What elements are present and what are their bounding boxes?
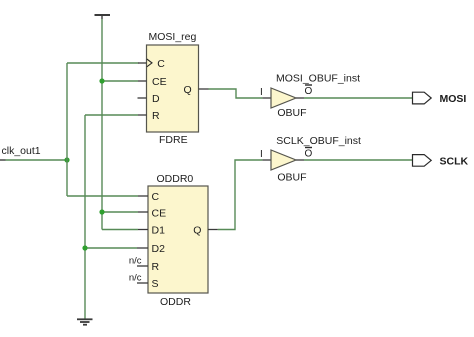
pin stub OBUF1 I <box>262 97 271 99</box>
pin stub ODDR D2 <box>137 247 148 249</box>
svg-text:O: O <box>305 149 313 160</box>
svg-text:S: S <box>152 278 159 290</box>
wire clk to ODDR C <box>67 195 138 197</box>
svg-text:D: D <box>152 93 160 105</box>
svg-text:SCLK: SCLK <box>440 156 469 168</box>
pin stub FDRE D <box>138 97 147 99</box>
svg-text:MOSI_OBUF_inst: MOSI_OBUF_inst <box>276 73 360 85</box>
wire OBUF2 to SCLK port <box>304 159 413 161</box>
svg-text:ODDR0: ODDR0 <box>157 173 194 185</box>
wire GND vertical <box>84 115 86 319</box>
svg-text:clk_out1: clk_out1 <box>2 145 41 157</box>
pin stub FDRE CE <box>138 80 147 82</box>
svg-text:OBUF: OBUF <box>277 172 306 184</box>
buffer OBUF U:MOSI_OBUF_inst <box>271 88 296 108</box>
svg-text:ODDR: ODDR <box>160 296 191 308</box>
buffer OBUF U:SCLK_OBUF_inst <box>271 150 296 170</box>
oddr ODDR U:ODDR0 body <box>148 186 208 293</box>
pin stub ODDR Q <box>208 229 218 231</box>
svg-text:I: I <box>260 87 263 98</box>
pin stub ODDR D1 <box>138 229 148 231</box>
pin stub ODDR R <box>137 265 148 267</box>
pin stub OBUF2 I <box>262 159 271 161</box>
pin stub ODDR C <box>138 195 148 197</box>
pin stub ODDR CE <box>138 211 148 213</box>
power VCC bar <box>95 14 111 16</box>
pin name OBUF1 O with tick <box>305 85 313 97</box>
wire clk to FDRE C <box>67 62 139 64</box>
wire VCC to ODDR CE <box>102 211 138 213</box>
svg-text:D2: D2 <box>152 243 166 255</box>
svg-text:OBUF: OBUF <box>277 107 306 119</box>
junction VCC/FDRE CE <box>99 78 104 83</box>
port SCLK pentagon <box>413 155 432 167</box>
svg-text:Q: Q <box>184 84 192 96</box>
svg-text:SCLK_OBUF_inst: SCLK_OBUF_inst <box>276 135 361 147</box>
svg-text:O: O <box>305 86 313 97</box>
svg-text:CE: CE <box>152 208 167 220</box>
node clk_out1 junction <box>64 157 69 162</box>
ground symbol <box>77 319 93 324</box>
svg-text:C: C <box>152 191 160 203</box>
svg-text:I: I <box>260 149 263 160</box>
svg-text:MOSI_reg: MOSI_reg <box>149 31 197 43</box>
wire VCC to FDRE CE <box>102 80 138 82</box>
wire OBUF1 to MOSI port <box>304 97 413 99</box>
clock wedge FDRE C <box>147 59 152 67</box>
svg-text:FDRE: FDRE <box>159 134 188 146</box>
pin stub FDRE Q <box>199 88 209 90</box>
wire FDRE Q to OBUF I <box>209 89 263 98</box>
register FDRE U:MOSI_reg body <box>147 45 199 132</box>
svg-text:R: R <box>152 110 160 122</box>
svg-text:R: R <box>152 261 160 273</box>
pin stub OBUF1 O <box>296 97 304 99</box>
junction VCC/ODDR CE <box>99 209 104 214</box>
svg-text:MOSI: MOSI <box>440 93 467 105</box>
pin stub FDRE C <box>138 62 147 64</box>
wire VCC vertical (net const1) <box>101 15 103 19</box>
port MOSI pentagon <box>413 92 432 104</box>
wire clk_out1 input stub <box>0 159 6 161</box>
wire ODDR Q to OBUF2 I <box>218 160 263 230</box>
junction GND/ODDR D2 <box>82 245 87 250</box>
svg-text:n/c: n/c <box>129 256 142 267</box>
wire VCC to ODDR D1 <box>102 229 138 231</box>
wire clk vertical <box>66 63 68 196</box>
wire GND to ODDR D2 <box>85 247 137 249</box>
pin stub FDRE R <box>138 114 147 116</box>
svg-text:CE: CE <box>152 76 167 88</box>
svg-text:Q: Q <box>193 225 201 237</box>
pin stub OBUF2 O <box>296 159 304 161</box>
svg-text:n/c: n/c <box>129 273 142 284</box>
wire GND to FDRE R <box>85 114 138 116</box>
pin name OBUF2 O with tick <box>305 148 313 160</box>
pin stub ODDR S <box>137 282 148 284</box>
svg-text:C: C <box>157 58 165 70</box>
wire clk_out1 horizontal <box>6 159 68 161</box>
svg-text:D1: D1 <box>152 225 166 237</box>
